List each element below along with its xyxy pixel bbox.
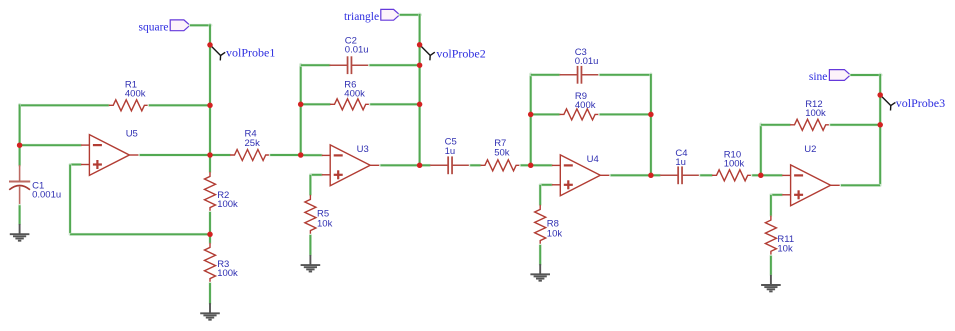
wire R7 to U4 minus junction <box>521 164 531 167</box>
wire C5 to R7 <box>470 164 480 167</box>
wire U4 left vertical: C3 corner to R9 junction <box>529 74 532 115</box>
net flag "sine" <box>809 70 851 84</box>
svg-text:U2: U2 <box>804 144 816 155</box>
resistor R5 10k <box>305 195 333 235</box>
node V1 probe1 junction <box>207 42 213 48</box>
node U2 minus input junction <box>758 173 764 179</box>
svg-text:25k: 25k <box>245 138 261 149</box>
svg-text:1u: 1u <box>675 157 686 168</box>
svg-text:100k: 100k <box>217 199 238 210</box>
wire V1 to R4 <box>210 154 230 157</box>
node R9 right junction <box>648 112 654 118</box>
wire V1 vertical: probe1 to R1 junction <box>209 45 212 105</box>
node V2 R6 junction <box>417 102 423 108</box>
wire U3 left vertical: C2 corner to R6 junction <box>299 64 302 104</box>
svg-text:100k: 100k <box>805 108 826 119</box>
wire C2 row left <box>301 64 330 67</box>
svg-text:400k: 400k <box>575 100 596 111</box>
wire sine-flag to node V7 <box>850 74 881 77</box>
net flag "triangle" <box>344 9 400 23</box>
svg-text:0.01u: 0.01u <box>345 45 369 56</box>
wire U5 output to node V1 <box>140 154 210 157</box>
wire V2 vertical: C2 to R6 junction <box>418 65 421 104</box>
svg-text:50k: 50k <box>494 148 510 159</box>
svg-text:triangle: triangle <box>344 11 379 23</box>
wire U3 output to node V2 <box>381 164 420 167</box>
capacitor C2 0.01u <box>330 36 370 75</box>
wire U4 right vertical: R9 junction to U4 output junction <box>650 114 653 175</box>
wire U4 minus junction to inverting input <box>531 164 552 167</box>
wire R1 to node V1 <box>149 104 210 107</box>
wire V7 vertical: R12 junction to U2 output <box>879 125 882 186</box>
wire V7 vertical: probe3 to R12 junction <box>879 95 882 125</box>
node V2 C2 junction <box>417 62 423 68</box>
net flag "square" <box>138 20 189 34</box>
resistor R6 400k <box>330 80 370 110</box>
wire R6 row left <box>301 103 330 106</box>
wire feedback vertical <box>69 165 72 235</box>
wire R4 to U3 minus junction <box>270 154 301 157</box>
wire C3 row right <box>600 73 651 76</box>
wire C1 to ground <box>18 205 21 224</box>
resistor R8 10k <box>535 205 563 245</box>
wire V1 vertical: R1 junction to U5 output junction <box>209 105 212 155</box>
op-amp U3 <box>322 144 381 186</box>
node U3 minus input junction <box>298 152 304 158</box>
svg-text:0.01u: 0.01u <box>575 56 599 67</box>
ground below R11 <box>761 275 781 292</box>
wire left vertical R1 row to U5 minus junction <box>18 104 21 145</box>
svg-text:10k: 10k <box>317 218 333 229</box>
wire C3 row left <box>531 73 560 76</box>
wire U4 plus down to R8 <box>539 185 542 205</box>
wire R10 to U2 minus junction <box>752 174 761 177</box>
node U5 minus input junction <box>17 142 23 148</box>
capacitor C1 0.001u <box>9 165 61 205</box>
wire V1 vertical: flag corner to probe1 junction <box>209 24 212 45</box>
wire U5 minus junction to U5 inverting input <box>20 144 81 147</box>
wire V2 vertical: flag corner to probe2 junction <box>418 14 421 45</box>
wire R5 to ground <box>309 235 312 255</box>
svg-text:0.001u: 0.001u <box>32 190 61 201</box>
voltage probe volProbe1 <box>210 45 275 61</box>
svg-text:1u: 1u <box>445 146 456 157</box>
svg-text:volProbe2: volProbe2 <box>436 46 485 60</box>
wire U4 plus input stub <box>540 183 552 186</box>
node U4 output junction <box>648 173 654 179</box>
svg-text:100k: 100k <box>724 158 745 169</box>
wire U4 left vertical: R9 junction to U4 minus junction <box>529 114 532 165</box>
svg-text:400k: 400k <box>125 89 146 100</box>
svg-text:U3: U3 <box>357 144 369 155</box>
wire U2 plus down to R11 <box>770 195 773 216</box>
svg-text:400k: 400k <box>344 89 365 100</box>
node V7 R12 junction <box>877 122 883 128</box>
wire left node to R1 <box>20 104 109 107</box>
wire C2 row right <box>370 64 420 67</box>
ground below R3 <box>200 303 220 320</box>
wire square-flag to node V1 <box>190 24 211 27</box>
wire V1 vertical: U5 output junction to R2 <box>209 155 212 172</box>
svg-text:volProbe1: volProbe1 <box>226 46 275 60</box>
ground below R5 <box>301 255 321 272</box>
wire R2 to feedback junction <box>209 212 212 234</box>
capacitor C5 1u <box>430 136 470 174</box>
wire U4 right vertical: C3 corner to R9 junction <box>650 74 653 115</box>
op-amp U5 <box>81 129 140 176</box>
resistor R12 100k <box>790 99 830 130</box>
wire U2 output to node V7 <box>841 184 880 187</box>
svg-text:10k: 10k <box>547 228 563 239</box>
ground below R8 <box>530 264 550 281</box>
voltage probe volProbe2 <box>420 45 486 61</box>
wire feedback horizontal to V1 <box>70 233 210 236</box>
wire V2 to C5 <box>420 164 431 167</box>
resistor R2 100k <box>205 172 239 212</box>
wire R3 to ground <box>209 283 212 304</box>
node V1 feedback junction <box>207 232 213 238</box>
wire triangle-flag to node V2 <box>400 13 421 16</box>
node U4 minus input junction <box>528 163 534 169</box>
node V2 U3 output junction <box>417 163 423 169</box>
resistor R1 400k <box>109 80 149 111</box>
resistor R7 50k <box>480 138 520 171</box>
wire V6 vertical: R12 corner to U2 minus junction <box>759 124 762 175</box>
wire U2 plus input stub <box>771 193 782 196</box>
wire feedback junction to R3 <box>209 234 212 243</box>
svg-text:sine: sine <box>809 71 828 83</box>
svg-text:U5: U5 <box>126 129 138 140</box>
wire U3 plus down to R5 <box>309 175 312 195</box>
wire V2 vertical: R6 junction to U3 output junction <box>418 104 421 165</box>
voltage probe volProbe3 <box>880 95 945 111</box>
wire R6 row right <box>370 103 419 106</box>
resistor R3 100k <box>205 243 239 283</box>
wire U5 plus input stub <box>70 163 81 166</box>
wire junction to C4 <box>651 174 660 177</box>
wire V2 vertical: probe2 to C2 junction <box>418 45 421 65</box>
node R6 left junction <box>298 102 304 108</box>
svg-text:U4: U4 <box>587 154 599 165</box>
node V1 U5 output junction <box>207 152 213 158</box>
wire R9 row right <box>600 113 651 116</box>
svg-text:10k: 10k <box>777 243 793 254</box>
wire R11 to ground <box>770 256 773 275</box>
svg-text:volProbe3: volProbe3 <box>896 96 945 110</box>
wire U3 minus junction to inverting input <box>301 154 322 157</box>
wire V7 vertical: flag corner to probe3 junction <box>879 74 882 95</box>
wire R8 to ground <box>539 245 542 265</box>
wire junction down to C1 <box>18 145 21 165</box>
wire R9 row left <box>531 113 560 116</box>
wire C4 to R10 <box>700 174 712 177</box>
wire R12 row right <box>830 123 880 126</box>
resistor R4 25k <box>230 129 270 161</box>
resistor R10 100k <box>712 149 752 180</box>
node R9 left junction <box>528 112 534 118</box>
wire R12 row left <box>761 123 790 126</box>
wire U4 output to junction <box>611 174 651 177</box>
wire U3 plus input stub <box>310 173 321 176</box>
op-amp U4 <box>552 154 611 196</box>
wire U3 left vertical: R6 junction to U3 minus junction <box>299 104 302 155</box>
ground below C1 <box>10 224 30 241</box>
node V2 probe2 junction <box>417 42 423 48</box>
svg-text:square: square <box>138 22 168 34</box>
resistor R9 400k <box>559 91 599 120</box>
node V1 R1 junction <box>207 103 213 109</box>
svg-text:100k: 100k <box>217 268 238 279</box>
capacitor C4 1u <box>660 148 700 184</box>
capacitor C3 0.01u <box>560 47 600 84</box>
wire U2 minus junction to inverting input <box>761 174 782 177</box>
op-amp U2 <box>782 144 841 206</box>
resistor R11 10k <box>765 216 794 256</box>
node V7 probe3 junction <box>877 92 883 98</box>
